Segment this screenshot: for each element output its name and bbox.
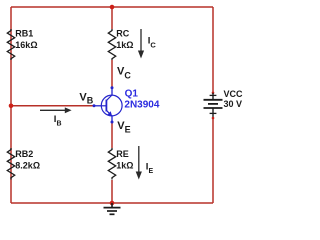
resistor RE [108, 148, 115, 180]
transistor Q1 base bar [105, 100, 107, 112]
wire right vertical upper [212, 7, 214, 93]
svg-text:1kΩ: 1kΩ [116, 40, 133, 50]
transistor Q1 collector diagonal [106, 95, 112, 101]
transistor Q1 body circle [101, 95, 122, 116]
battery VCC plate long upper [204, 99, 223, 101]
transistor Q1 base lead [94, 105, 101, 107]
svg-text:RB1: RB1 [15, 29, 33, 39]
wire left vertical [10, 7, 12, 203]
wire top horizontal [11, 6, 213, 8]
battery VCC plate short middle [208, 103, 218, 105]
ground bar 2 [107, 210, 117, 212]
ground bar 3 [110, 213, 115, 215]
svg-text:RB2: RB2 [15, 149, 33, 159]
battery VCC top tick [210, 94, 217, 96]
transistor Q1 base pin dot [93, 104, 96, 107]
battery VCC plate long lower [204, 107, 223, 109]
wire RE to bottom [111, 180, 113, 203]
node junction dot top [110, 5, 115, 10]
transistor Q1 inner base lead [101, 105, 106, 107]
current arrow IC [138, 29, 144, 59]
transistor Q1 emitter pin dot [111, 121, 114, 124]
svg-text:RC: RC [116, 29, 129, 39]
resistor RC [108, 29, 115, 60]
battery VCC bottom pin [212, 117, 215, 120]
svg-text:16kΩ: 16kΩ [15, 40, 37, 50]
wire base horizontal [11, 105, 94, 107]
ground bar 1 [104, 207, 121, 209]
transistor Q1 emitter diagonal [106, 110, 112, 116]
resistor RB2 [7, 148, 14, 180]
wire bottom horizontal [11, 202, 213, 204]
wire right vertical lower [212, 118, 214, 203]
battery VCC bottom stub [212, 108, 214, 118]
svg-text:2N3904: 2N3904 [124, 99, 159, 110]
wire collector branch top [111, 7, 113, 29]
transistor Q1 collector lead [111, 88, 113, 96]
node junction dot left (base tee) [9, 104, 14, 109]
node junction dot bottom (ground) [110, 201, 115, 206]
transistor Q1 emitter lead [111, 116, 113, 122]
transistor Q1 emitter arrow [108, 111, 113, 116]
current arrow IB [40, 107, 72, 113]
ground stub [111, 203, 113, 208]
resistor RB1 [7, 29, 14, 60]
svg-text:RE: RE [116, 149, 129, 159]
wire emitter to RE [111, 122, 113, 148]
wire RC to collector [111, 60, 113, 88]
svg-text:VCC: VCC [224, 89, 244, 99]
battery VCC top pin [212, 92, 215, 95]
svg-text:1kΩ: 1kΩ [116, 160, 133, 170]
transistor Q1 collector pin dot [111, 86, 114, 89]
svg-text:8.2kΩ: 8.2kΩ [15, 160, 40, 170]
battery VCC bottom tick [210, 112, 217, 114]
battery VCC top stub [212, 93, 214, 100]
svg-text:Q1: Q1 [125, 88, 139, 99]
current arrow IE [136, 146, 142, 180]
svg-text:30 V: 30 V [224, 99, 243, 109]
